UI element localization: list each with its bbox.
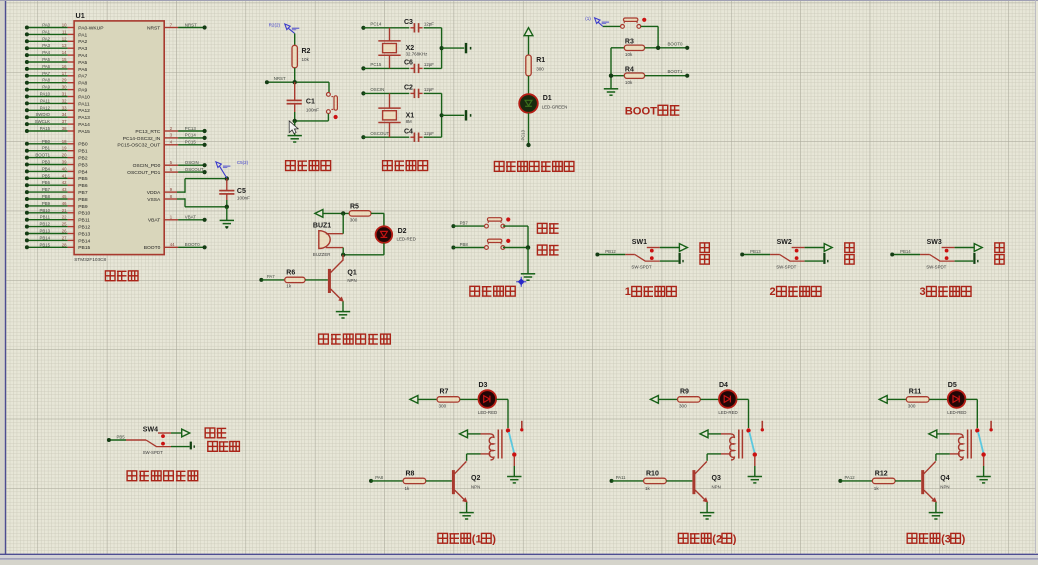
- svg-text:PB1: PB1: [42, 146, 51, 151]
- svg-text:PA1: PA1: [42, 29, 50, 34]
- pin PA11 wire PA11: [25, 98, 90, 107]
- svg-text:100nF: 100nF: [237, 195, 250, 200]
- svg-text:PB7: PB7: [460, 220, 469, 225]
- ground SW1: [680, 253, 683, 264]
- svg-text:(1): (1): [585, 16, 591, 21]
- pin PA9 wire PA9: [25, 85, 88, 94]
- wire PB7 button right: [503, 226, 528, 247]
- wire probe to boot button: [603, 25, 621, 27]
- power arrow R11: [879, 396, 887, 404]
- resistor R4: [611, 66, 689, 85]
- resistor R2: [292, 45, 311, 68]
- led D1: [519, 94, 567, 113]
- svg-text:PA2: PA2: [42, 36, 50, 41]
- push button PB8: [485, 239, 511, 250]
- svg-text:30: 30: [62, 85, 67, 90]
- svg-text:LED-RED: LED-RED: [718, 410, 737, 415]
- capacitor C1: [287, 82, 320, 123]
- svg-text:PB4: PB4: [42, 166, 51, 171]
- pin PB15 wire PB15: [25, 242, 91, 251]
- svg-text:SW2: SW2: [777, 239, 792, 246]
- switch SW1: [595, 239, 659, 269]
- wire SW4 NC to ground: [171, 446, 190, 448]
- svg-text:Q4: Q4: [940, 475, 949, 482]
- svg-text:SW-SPDT: SW-SPDT: [926, 264, 946, 269]
- pin PB12 wire PB12: [25, 222, 91, 231]
- svg-text:28: 28: [62, 242, 67, 247]
- pin PB11 wire PB11: [25, 215, 90, 224]
- svg-text:BUZZER: BUZZER: [313, 252, 331, 257]
- svg-text:PA1: PA1: [78, 32, 87, 38]
- svg-text:SW1: SW1: [632, 239, 647, 246]
- label independent-keys: [470, 286, 515, 296]
- svg-text:1k: 1k: [874, 486, 880, 491]
- svg-text:SW3: SW3: [927, 239, 942, 246]
- wire D4 to relay contact: [737, 399, 749, 428]
- pin PB7 wire PB7: [25, 187, 88, 196]
- microcontroller U1: [74, 11, 164, 262]
- svg-text:R1: R1: [536, 57, 545, 64]
- svg-text:PB9: PB9: [78, 204, 88, 210]
- wire R5 to D2: [371, 213, 384, 226]
- svg-text:): ): [492, 533, 496, 545]
- ground X2 rail: [466, 43, 471, 53]
- svg-text:43: 43: [62, 187, 67, 192]
- svg-text:PA12: PA12: [40, 105, 51, 110]
- svg-text:R4: R4: [625, 66, 634, 73]
- svg-text:44: 44: [170, 242, 175, 247]
- node NRST: [265, 76, 329, 84]
- resistor R9: [658, 389, 700, 409]
- resistor R6: [259, 270, 328, 289]
- svg-text:12pF: 12pF: [424, 62, 434, 67]
- pin PA15 wire PA15: [25, 126, 90, 135]
- transistor Q2: [452, 461, 481, 512]
- svg-text:18: 18: [62, 139, 67, 144]
- svg-text:39: 39: [62, 160, 67, 165]
- relay contact NO stub 3: [989, 421, 992, 432]
- resistor R11: [887, 389, 929, 409]
- relay blade 2: [749, 432, 754, 453]
- pin PA6 wire PA6: [25, 64, 88, 73]
- svg-text:LED-RED: LED-RED: [478, 410, 497, 415]
- svg-text:R6: R6: [286, 270, 295, 277]
- pin PB5 wire PB5: [25, 173, 88, 182]
- wire probe to R2: [294, 33, 296, 45]
- svg-text:PC14: PC14: [185, 133, 197, 138]
- svg-text:27: 27: [62, 235, 67, 240]
- relay contact common 1: [506, 428, 510, 432]
- svg-text:VSSA: VSSA: [147, 197, 161, 203]
- svg-text:C3: C3: [404, 19, 413, 26]
- svg-text:PB5: PB5: [78, 176, 88, 182]
- svg-text:3: 3: [920, 286, 926, 298]
- pin PB10 wire PB10: [25, 208, 91, 217]
- relay contact NC 3: [981, 452, 985, 456]
- svg-text:BOOT1: BOOT1: [35, 153, 50, 158]
- capacitor C4: [404, 129, 442, 142]
- wire contact NC to ground 1: [513, 457, 515, 477]
- relay contact NC 1: [512, 452, 516, 456]
- svg-text:BOOT0: BOOT0: [185, 242, 200, 247]
- probe R2(2): [269, 22, 300, 33]
- wire contact NC to ground 3: [983, 457, 985, 477]
- svg-text:SW-SPDT: SW-SPDT: [776, 264, 796, 269]
- svg-text:33: 33: [62, 105, 67, 110]
- svg-text:C4: C4: [404, 129, 413, 136]
- svg-text:R9: R9: [680, 389, 689, 396]
- wire R2 to NRST node: [294, 68, 296, 82]
- svg-text:BOOT1: BOOT1: [668, 69, 683, 74]
- ground keys: [521, 274, 535, 280]
- ground relay contact 2: [748, 477, 762, 483]
- svg-text:PB13: PB13: [750, 249, 761, 254]
- label program-run-indicator: [494, 162, 574, 172]
- pin PC13_RTC wire PC13: [135, 126, 206, 135]
- svg-text:PB0: PB0: [42, 139, 51, 144]
- svg-text:BOOT0: BOOT0: [668, 41, 683, 46]
- svg-text:PB14: PB14: [39, 235, 50, 240]
- ground relay contact 3: [976, 477, 990, 483]
- svg-text:PB0: PB0: [78, 142, 88, 148]
- pin NRST wire NRST: [147, 22, 207, 31]
- svg-text:PA4: PA4: [78, 53, 87, 59]
- wire keys rail to ground: [527, 248, 529, 274]
- svg-text:LED-GREEN: LED-GREEN: [542, 104, 568, 109]
- svg-text:14: 14: [62, 50, 67, 55]
- pin PB14 wire PB14: [25, 235, 91, 244]
- svg-text:R11: R11: [909, 389, 922, 396]
- power arrow R5: [315, 210, 323, 218]
- svg-text:BOOT: BOOT: [625, 106, 657, 118]
- power arrow R9: [650, 396, 658, 404]
- label relay-2: [678, 533, 736, 545]
- svg-text:PA3: PA3: [42, 43, 50, 48]
- svg-text:VDDA: VDDA: [147, 190, 161, 196]
- wire R1 to D1: [528, 76, 530, 94]
- led D4: [700, 382, 737, 415]
- transistor Q4: [921, 461, 950, 512]
- pin PA7 wire PA7: [25, 71, 88, 80]
- resistor R5: [349, 203, 371, 222]
- power arrow R7: [410, 396, 418, 404]
- svg-text:R7: R7: [440, 389, 449, 396]
- node PC14: [361, 22, 409, 30]
- relay contact common 3: [975, 428, 979, 432]
- svg-text:PC15-OSC32_OUT: PC15-OSC32_OUT: [117, 143, 160, 149]
- svg-text:PB13: PB13: [39, 229, 50, 234]
- svg-text:D2: D2: [398, 228, 407, 235]
- svg-text:PA2: PA2: [78, 39, 87, 45]
- svg-text:PA5: PA5: [42, 57, 50, 62]
- pin PA5 wire PA5: [25, 57, 88, 66]
- mouse cursor: [289, 121, 298, 134]
- svg-text:42: 42: [62, 180, 67, 185]
- probe (1): [585, 16, 609, 26]
- svg-text:OSCOUT: OSCOUT: [370, 131, 389, 136]
- svg-text:PA7: PA7: [267, 274, 275, 279]
- relay coil 3: [936, 430, 971, 461]
- svg-text:PB15: PB15: [39, 242, 50, 247]
- relay blade 3: [978, 432, 983, 453]
- svg-text:(3: (3: [941, 533, 951, 545]
- svg-text:PB10: PB10: [78, 211, 90, 217]
- svg-text:PB5: PB5: [42, 173, 51, 178]
- svg-text:PC14: PC14: [370, 22, 382, 27]
- svg-text:PC15: PC15: [370, 62, 382, 67]
- svg-text:PA10: PA10: [40, 92, 51, 97]
- svg-text:D1: D1: [543, 95, 552, 102]
- svg-text:PC13: PC13: [521, 129, 526, 140]
- capacitor C3: [404, 19, 442, 32]
- svg-text:PB11: PB11: [78, 218, 90, 224]
- ground SW4: [191, 442, 194, 450]
- label relay-1: [438, 533, 496, 545]
- svg-text:PA11: PA11: [40, 98, 50, 103]
- wire contact NC to ground 2: [754, 457, 756, 477]
- pin PB0 wire PB0: [25, 139, 88, 148]
- svg-text:R3: R3: [625, 39, 634, 46]
- svg-text:300: 300: [536, 66, 544, 71]
- svg-text:SW-SPDT: SW-SPDT: [631, 264, 651, 269]
- svg-text:PA14: PA14: [78, 122, 90, 128]
- svg-text:1k: 1k: [286, 283, 292, 288]
- ground C5: [220, 220, 234, 228]
- svg-text:C2: C2: [404, 85, 413, 92]
- svg-text:OSCIN: OSCIN: [185, 160, 199, 165]
- svg-text:C1: C1: [306, 99, 315, 106]
- wire buzzer rail: [342, 213, 344, 254]
- svg-text:STM32F103C8: STM32F103C8: [74, 257, 106, 262]
- wire C1 to ground: [294, 121, 296, 135]
- svg-text:Q1: Q1: [347, 269, 356, 276]
- svg-text:8M: 8M: [406, 119, 412, 124]
- svg-text:300: 300: [350, 218, 358, 223]
- capacitor C5: [219, 176, 250, 209]
- svg-text:VBAT: VBAT: [148, 218, 160, 224]
- svg-text:LED-RED: LED-RED: [947, 410, 966, 415]
- label not-trigger: [208, 442, 240, 452]
- ground relay contact 1: [507, 477, 521, 483]
- label wu SW3: [995, 243, 1004, 253]
- pin PA12 wire PA12: [25, 105, 90, 114]
- svg-text:R2(2): R2(2): [269, 22, 281, 27]
- svg-text:10: 10: [62, 23, 67, 28]
- svg-text:PC14-OSC32_IN: PC14-OSC32_IN: [123, 136, 161, 142]
- svg-text:PA10: PA10: [78, 94, 90, 100]
- svg-text:D5: D5: [948, 382, 957, 389]
- svg-text:PA12: PA12: [845, 475, 856, 480]
- pin OSCIN_PD0 wire OSCIN: [133, 160, 207, 169]
- label pause: [537, 245, 558, 255]
- node PC15: [361, 62, 409, 70]
- svg-text:R2: R2: [302, 48, 311, 55]
- svg-text:PB8: PB8: [460, 242, 469, 247]
- ground Q4: [929, 513, 943, 519]
- pin PB3 wire PB3: [25, 160, 88, 169]
- label sound-light-alarm: [319, 334, 391, 344]
- svg-text:22: 22: [62, 215, 67, 220]
- svg-text:R10: R10: [646, 470, 659, 477]
- svg-text:PB14: PB14: [900, 249, 911, 254]
- label BOOT-circuit: [625, 105, 680, 117]
- pin OSCOUT_PD1 wire OSCOUT: [127, 167, 207, 176]
- svg-text:2: 2: [770, 286, 776, 298]
- pin PA2 wire PA2: [25, 36, 88, 45]
- svg-text:NPN: NPN: [712, 485, 721, 490]
- node OSCOUT: [361, 131, 409, 139]
- wire boot left rail: [609, 48, 613, 89]
- svg-text:Q3: Q3: [712, 475, 721, 482]
- svg-text:PB14: PB14: [78, 238, 90, 244]
- svg-text:PB3: PB3: [42, 160, 51, 165]
- svg-text:(2: (2: [712, 533, 722, 545]
- pin PA14 wire SWCLK: [25, 119, 90, 128]
- svg-text:SWDIO: SWDIO: [35, 112, 50, 117]
- node PB7: [451, 220, 486, 228]
- svg-text:PA0: PA0: [42, 23, 50, 28]
- wire SW3 NC to ground: [955, 260, 974, 262]
- svg-text:Q2: Q2: [471, 475, 480, 482]
- svg-text:38: 38: [62, 126, 67, 131]
- svg-text:PB6: PB6: [42, 180, 51, 185]
- relay contact common 2: [746, 428, 750, 432]
- svg-text:45: 45: [62, 194, 67, 199]
- pin PA0-WKUP wire PA0: [25, 23, 104, 32]
- svg-text:PB7: PB7: [78, 190, 88, 196]
- svg-text:PA11: PA11: [78, 101, 90, 107]
- svg-text:100nF: 100nF: [306, 107, 319, 112]
- pin PA10 wire PA10: [25, 92, 90, 101]
- resistor R8: [369, 470, 452, 491]
- svg-text:PA7: PA7: [78, 74, 87, 80]
- svg-text:PA3: PA3: [78, 46, 87, 52]
- svg-text:BOOT0: BOOT0: [144, 245, 161, 251]
- svg-text:OSCIN: OSCIN: [370, 87, 384, 92]
- svg-text:1k: 1k: [645, 486, 651, 491]
- svg-text:PA15: PA15: [40, 126, 51, 131]
- resistor R3: [611, 39, 689, 58]
- pin VDDA wire: [147, 179, 227, 196]
- svg-text:34: 34: [62, 112, 67, 117]
- pin PA8 wire PA8: [25, 78, 88, 87]
- power arrow relay coil 3: [929, 430, 937, 438]
- pin PB13 wire PB13: [25, 229, 91, 238]
- label you SW2: [845, 255, 854, 265]
- svg-text:PA15: PA15: [78, 129, 90, 135]
- svg-text:PB2: PB2: [78, 156, 88, 162]
- svg-text:PA6: PA6: [78, 67, 87, 73]
- svg-text:PC13_RTC: PC13_RTC: [135, 129, 160, 135]
- label open: [537, 223, 558, 233]
- svg-text:NPN: NPN: [347, 278, 356, 283]
- svg-text:12: 12: [62, 36, 67, 41]
- svg-text:NPN: NPN: [940, 485, 949, 490]
- ground C1: [288, 136, 302, 142]
- label trigger: [205, 428, 226, 438]
- buzzer BUZ1: [313, 223, 343, 257]
- svg-text:C5(2): C5(2): [237, 160, 249, 165]
- wire D2 bottom: [341, 243, 384, 257]
- pin PA13 wire SWDIO: [25, 112, 90, 121]
- ground Q1: [336, 312, 350, 318]
- wire SW2 NO to power: [805, 244, 833, 252]
- svg-text:): ): [733, 533, 737, 545]
- pin PB6 wire PB6: [25, 180, 88, 189]
- svg-text:PC15: PC15: [185, 140, 197, 145]
- svg-text:13: 13: [62, 43, 67, 48]
- ground Q2: [459, 513, 473, 519]
- wire SW1 NC to ground: [660, 260, 679, 262]
- svg-text:300: 300: [679, 404, 687, 409]
- switch SW4: [107, 426, 171, 454]
- svg-text:PB8: PB8: [78, 197, 88, 203]
- capacitor C6: [404, 60, 442, 73]
- pin PB8 wire PB8: [25, 194, 88, 203]
- svg-text:PA0-WKUP: PA0-WKUP: [78, 25, 103, 31]
- svg-text:NPN: NPN: [471, 485, 480, 490]
- svg-text:1: 1: [625, 286, 631, 298]
- svg-text:PA9: PA9: [78, 88, 87, 94]
- svg-text:SWCLK: SWCLK: [35, 119, 50, 124]
- wire SW2 NC to ground: [805, 260, 824, 262]
- relay coil 1: [467, 430, 502, 461]
- svg-text:(1: (1: [472, 533, 482, 545]
- wire SW4 NO to power: [171, 429, 190, 437]
- pin VBAT wire VBAT: [148, 215, 207, 224]
- svg-text:12pF: 12pF: [424, 87, 434, 92]
- svg-text:25: 25: [62, 222, 67, 227]
- svg-text:PB1: PB1: [78, 149, 88, 155]
- svg-text:PA5: PA5: [78, 60, 87, 66]
- pin PB4 wire PB4: [25, 166, 88, 175]
- svg-text:17: 17: [62, 71, 67, 76]
- svg-text:PB4: PB4: [78, 169, 88, 175]
- svg-text:21: 21: [62, 208, 67, 213]
- svg-text:19: 19: [62, 146, 67, 151]
- origin marker: [516, 277, 526, 287]
- svg-text:BUZ1: BUZ1: [313, 223, 331, 230]
- svg-text:VBAT: VBAT: [185, 215, 196, 220]
- svg-text:PB5: PB5: [117, 434, 126, 439]
- svg-text:PB11: PB11: [40, 215, 51, 220]
- pin VSSA wire: [147, 194, 227, 207]
- push button PB7: [485, 217, 511, 228]
- svg-text:U1: U1: [76, 11, 85, 20]
- svg-text:PA7: PA7: [42, 71, 50, 76]
- svg-text:D3: D3: [479, 382, 488, 389]
- svg-text:20: 20: [62, 153, 67, 158]
- pin PA4 wire PA4: [25, 50, 88, 59]
- svg-text:PA8: PA8: [375, 475, 383, 480]
- led D3: [460, 382, 497, 415]
- svg-text:PB9: PB9: [42, 201, 51, 206]
- wire X1 right rail: [440, 93, 465, 137]
- resistor R7: [418, 389, 460, 409]
- svg-text:PC13: PC13: [185, 126, 197, 131]
- ground SW2: [824, 253, 827, 264]
- svg-text:LED-RED: LED-RED: [397, 236, 416, 241]
- pin PB2 wire BOOT1: [25, 153, 88, 162]
- svg-text:46: 46: [62, 201, 67, 206]
- svg-text:OSCOUT: OSCOUT: [185, 167, 204, 172]
- label 2-bottle: [770, 286, 822, 298]
- wire SW3 NO to power: [955, 244, 983, 252]
- ground X1 rail: [466, 110, 471, 120]
- label reset-circuit: [286, 161, 331, 171]
- svg-text:PB12: PB12: [605, 249, 616, 254]
- wire D5 to relay contact: [965, 399, 977, 428]
